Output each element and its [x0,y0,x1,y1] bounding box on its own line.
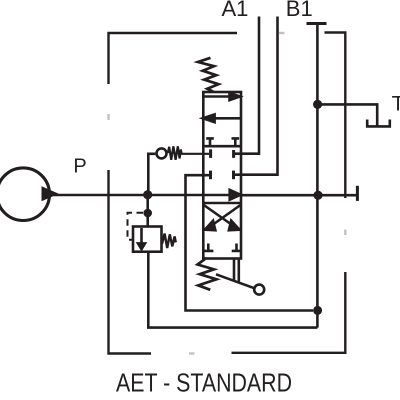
svg-text:A1: A1 [222,0,249,21]
svg-text:B1: B1 [286,0,313,21]
svg-text:P: P [73,156,86,178]
svg-text:T: T [392,92,400,115]
svg-text:AET - STANDARD: AET - STANDARD [116,369,292,397]
